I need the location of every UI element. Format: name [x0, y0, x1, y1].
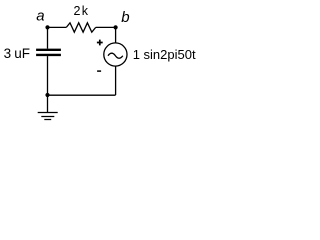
- svg-text:b: b: [121, 9, 129, 26]
- ground symbol bars: [38, 113, 58, 120]
- svg-text:2: 2: [74, 4, 81, 18]
- wire: node a to resistor: [48, 26, 67, 28]
- AC source sine symbol: [108, 53, 123, 58]
- node a junction dot: [45, 25, 49, 29]
- capacitor C1 (3 uF) top plate: [36, 49, 61, 51]
- bottom junction dot: [45, 93, 49, 97]
- svg-text:uF: uF: [14, 46, 30, 61]
- svg-text:1 sin2pi50t: 1 sin2pi50t: [133, 47, 196, 62]
- AC source V1 circle: [104, 43, 127, 66]
- resistor R1 (2 k) zigzag: [66, 23, 95, 32]
- wire: resistor to node b: [96, 26, 116, 28]
- svg-text:3: 3: [4, 46, 12, 61]
- ground stub wire: [47, 95, 49, 113]
- svg-text:a: a: [36, 8, 44, 25]
- wire: node a down to capacitor: [47, 27, 49, 48]
- plus polarity mark: [97, 40, 103, 46]
- svg-text:k: k: [82, 4, 89, 18]
- bottom rail wire: [48, 94, 116, 96]
- capacitor C1 (3 uF) bottom plate: [36, 54, 61, 56]
- wire: capacitor to bottom rail: [47, 56, 49, 95]
- wire: node b down to source + terminal: [115, 27, 117, 42]
- wire: source - terminal down to bottom rail: [115, 66, 117, 95]
- node b junction dot: [114, 25, 118, 29]
- minus polarity mark: [97, 70, 101, 72]
